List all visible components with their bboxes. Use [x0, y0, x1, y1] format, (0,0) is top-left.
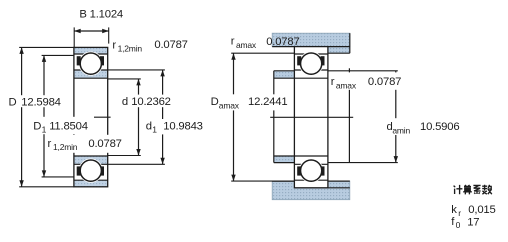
- svg-text:17: 17: [467, 216, 479, 228]
- ball bottom: [80, 160, 101, 181]
- mask d text: [120, 95, 175, 108]
- svg-text:amax: amax: [219, 101, 240, 111]
- glyph xi: [473, 185, 480, 194]
- svg-text:10.5906: 10.5906: [420, 121, 459, 133]
- svg-text:12.5984: 12.5984: [21, 96, 60, 108]
- outer ring top band (blue): [74, 47, 108, 54]
- band edge lines top section: [74, 53, 108, 55]
- svg-text:r: r: [231, 36, 235, 48]
- mask r12 bottom text: [46, 135, 120, 153]
- housing top shoulder right edge: [349, 33, 351, 53]
- glyph ji: [454, 185, 463, 194]
- right bearing band edge lines bottom: [294, 179, 328, 181]
- raceway groove cutout bottom: [79, 159, 103, 183]
- cage bar top-left: [77, 56, 81, 65]
- cage bar top-right: [100, 56, 104, 65]
- mask ramax mid text: [329, 72, 400, 89]
- housing bottom block (blue): [272, 181, 350, 200]
- svg-text:10.9843: 10.9843: [163, 121, 202, 133]
- svg-text:r: r: [112, 40, 116, 52]
- svg-text:amin: amin: [392, 126, 410, 136]
- B extension lines: [73, 27, 75, 47]
- svg-text:0.0787: 0.0787: [88, 138, 121, 150]
- svg-text:D: D: [211, 96, 219, 108]
- svg-text:0,015: 0,015: [468, 204, 495, 216]
- svg-text:B 1.1024: B 1.1024: [79, 9, 123, 21]
- axis tick right of left bearing: [94, 116, 111, 118]
- svg-text:1,2min: 1,2min: [118, 44, 143, 54]
- svg-text:0.0787: 0.0787: [368, 76, 401, 88]
- damin extension lines: [328, 70, 398, 72]
- svg-text:D: D: [9, 96, 17, 108]
- D1 extension lines: [42, 54, 74, 56]
- shaft shoulder top strip (blue): [274, 71, 295, 78]
- mask Damax text: [209, 94, 288, 110]
- dimension d: vertical line with arrows: [138, 79, 140, 156]
- dimension D1: vertical line with arrows: [43, 55, 45, 176]
- svg-text:11.8504: 11.8504: [49, 121, 88, 133]
- dimension B: line and arrows: [74, 30, 109, 32]
- svg-text:r: r: [48, 138, 52, 150]
- cage bar bottom-left: [77, 166, 81, 175]
- svg-text:r: r: [331, 76, 335, 88]
- right bearing cage bars bottom: [297, 166, 301, 175]
- svg-text:0.0787: 0.0787: [266, 36, 299, 48]
- svg-text:12.2441: 12.2441: [248, 96, 287, 108]
- housing top bore line: [272, 46, 350, 48]
- right bearing ball bottom: [301, 160, 322, 181]
- svg-text:d: d: [122, 96, 128, 108]
- mask damin text: [385, 118, 460, 135]
- housing top shoulder bottom edge: [328, 52, 350, 54]
- mask D1 text: [31, 117, 94, 134]
- svg-text:10.2362: 10.2362: [131, 96, 170, 108]
- svg-text:amax: amax: [336, 80, 357, 90]
- housing top band (blue): [272, 33, 350, 46]
- cage bar bottom-right: [100, 166, 104, 175]
- dimension damin: vertical line with arrows: [395, 71, 397, 163]
- svg-text:1: 1: [42, 125, 47, 135]
- right bearing raceway cutout bottom: [299, 159, 323, 183]
- svg-text:amax: amax: [236, 40, 257, 50]
- right bearing outline: [294, 47, 328, 188]
- dimension d1: vertical line with arrows: [162, 70, 164, 164]
- right bearing raceway cutout top: [299, 52, 323, 76]
- calculation factors heading 计算系数 (drawn strokes): [454, 185, 492, 195]
- housing bottom shoulder top edge / Damax ext: [272, 180, 350, 182]
- mask D text: [7, 95, 64, 107]
- inner ring top band (blue): [74, 70, 108, 78]
- glyph suan: [463, 185, 472, 194]
- shaft shoulder left face: [273, 71, 275, 163]
- ball top: [80, 53, 101, 74]
- right bearing cage bars top: [297, 56, 301, 65]
- svg-text:1,2min: 1,2min: [53, 142, 78, 152]
- right bearing band edge lines top: [294, 53, 328, 55]
- outer ring bottom band (blue): [74, 180, 108, 187]
- svg-text:0: 0: [456, 220, 461, 230]
- right bearing ball top: [301, 53, 322, 74]
- dimension D: vertical line with arrows: [21, 47, 23, 186]
- bearing outline: [74, 47, 108, 186]
- raceway groove cutout top: [79, 52, 103, 76]
- right bearing white body: [294, 47, 328, 188]
- dimension Damax: vertical line with arrows: [233, 53, 235, 181]
- shaft shoulder bottom strip (blue): [274, 156, 295, 163]
- D extension lines: [19, 46, 74, 48]
- svg-text:1: 1: [152, 125, 157, 135]
- svg-text:D: D: [33, 121, 41, 133]
- svg-text:0.0787: 0.0787: [154, 39, 187, 51]
- mask d1 text: [144, 119, 204, 134]
- svg-text:k: k: [451, 204, 457, 216]
- inner ring bottom band (blue): [74, 156, 108, 164]
- band edge lines bottom section: [74, 179, 108, 181]
- svg-text:r: r: [458, 208, 461, 218]
- shaft end face line: [348, 68, 350, 162]
- svg-text:d: d: [146, 121, 152, 133]
- housing top shoulder (blue): [328, 47, 350, 54]
- housing bottom bore line right of bearing: [328, 187, 350, 189]
- Damax extension lines: [231, 52, 294, 54]
- d1 extension lines: [108, 69, 165, 71]
- d extension lines: [108, 78, 141, 80]
- glyph shu: [482, 185, 492, 194]
- axis centerline of right figure: [270, 116, 353, 118]
